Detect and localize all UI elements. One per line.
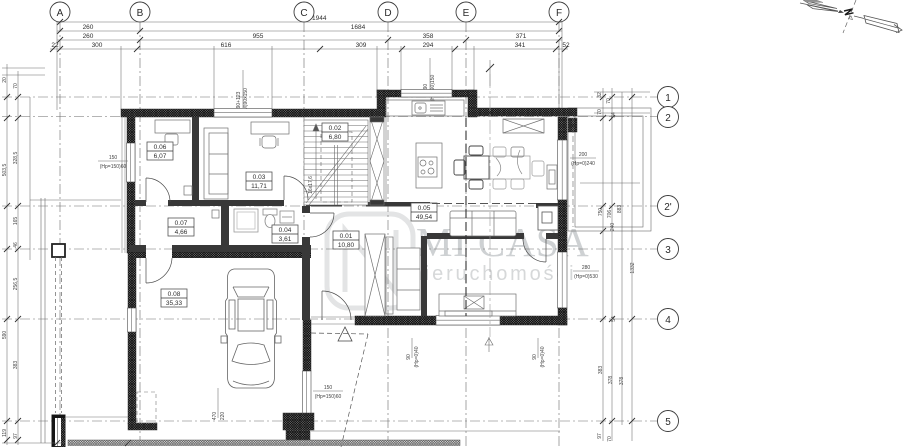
svg-text:200: 200 [579, 152, 588, 158]
bottom retaining wall band [68, 440, 460, 446]
window W3 in alcove top wall [401, 90, 452, 98]
hall shelf cabinet [397, 248, 420, 310]
window text 90 bottom right [532, 338, 546, 367]
grid circle 5 [658, 411, 679, 432]
tick mark 14 near E [486, 60, 494, 86]
svg-text:0.03: 0.03 [253, 174, 266, 181]
stairwell wall with cross bracing [370, 117, 384, 205]
svg-text:150: 150 [109, 155, 118, 161]
door 0.03 [284, 176, 308, 200]
bathroom shower [234, 209, 258, 232]
grid circle F [549, 2, 569, 22]
door 0.07 to garage [146, 258, 172, 283]
room 0.06 chair [165, 134, 178, 145]
svg-text:20: 20 [2, 77, 8, 83]
window W5 bedroom right wall [558, 252, 568, 308]
svg-text:0.01: 0.01 [340, 233, 353, 240]
room label 0.03 [246, 172, 272, 190]
TV nook wall stub [536, 203, 558, 208]
interior wall garage top right part [172, 245, 311, 252]
bold grid E segment through house [465, 118, 467, 316]
bedroom bed [439, 294, 516, 316]
alcove left wall [377, 90, 386, 117]
svg-text:280: 280 [582, 265, 591, 271]
svg-text:(Hp=150)60: (Hp=150)60 [315, 394, 342, 400]
svg-text:B: B [137, 8, 144, 19]
roof outline dashed over driveway [311, 333, 368, 447]
door bedroom [523, 239, 546, 262]
svg-text:503,5: 503,5 [2, 164, 8, 177]
svg-text:90: 90 [406, 354, 412, 360]
svg-text:220: 220 [220, 412, 226, 421]
stairs 0.02 [304, 120, 368, 205]
hob [418, 157, 437, 177]
svg-text:70: 70 [606, 98, 612, 104]
radiator box hall 0.07 [212, 210, 219, 218]
room label 0.02 [322, 123, 348, 141]
svg-text:616: 616 [221, 42, 232, 49]
svg-text:6,07: 6,07 [154, 153, 167, 160]
carport column top [52, 244, 65, 257]
svg-text:A: A [57, 8, 64, 19]
interior wall below 0.06 right part [168, 200, 192, 206]
exterior wall left [127, 115, 135, 253]
kitchen counter top [386, 100, 464, 116]
top dimension row 2 (260,1684) [57, 24, 562, 34]
carport column base bottom [65, 416, 128, 418]
room 0.03 sofa [204, 128, 228, 199]
svg-text:119: 119 [2, 429, 8, 437]
svg-text:90+123: 90+123 [236, 91, 242, 108]
grid circle C [294, 2, 314, 22]
svg-text:4,66: 4,66 [175, 229, 188, 236]
entrance triangle marker [338, 327, 352, 341]
svg-text:49,54: 49,54 [416, 214, 433, 221]
washbasin [280, 211, 294, 223]
svg-text:0.02: 0.02 [329, 125, 342, 132]
plot boundary lines left [30, 198, 121, 443]
top dimension row 1 (1944) [57, 15, 562, 25]
svg-text:260: 260 [83, 33, 94, 40]
svg-text:3: 3 [665, 245, 671, 256]
svg-text:0.04: 0.04 [279, 227, 292, 234]
grid circle E [456, 2, 476, 22]
room label 0.01 [333, 231, 359, 249]
garage right exterior wall [303, 320, 311, 371]
TV cabinet lower [538, 206, 558, 230]
window W8 garage right wall [303, 371, 312, 414]
svg-text:54: 54 [611, 316, 617, 322]
grid circle A [50, 2, 70, 22]
terrace dashed edge [572, 118, 574, 227]
kitchen sink [412, 101, 445, 115]
svg-text:70: 70 [597, 109, 603, 115]
garage door text 470/220 [212, 388, 226, 420]
grid circle 4 [658, 309, 679, 330]
svg-text:378: 378 [608, 376, 614, 385]
interior wall bedroom top stub [546, 233, 558, 239]
svg-text:97: 97 [597, 433, 603, 439]
interior wall hall/bedroom [421, 236, 427, 316]
door 0.06 [146, 178, 170, 202]
svg-text:1332: 1332 [630, 262, 636, 273]
carport dashed edge [56, 257, 62, 413]
svg-text:294: 294 [423, 42, 434, 49]
svg-text:52: 52 [562, 42, 570, 49]
terrace corner wall stub [568, 118, 577, 132]
svg-text:378: 378 [619, 377, 625, 386]
dining table [454, 146, 544, 189]
grid circle 2 [658, 107, 679, 128]
svg-text:150: 150 [324, 385, 333, 391]
interior wall 0.07/0.04 [221, 206, 229, 250]
exterior wall right lower [558, 238, 567, 252]
svg-text:256,5: 256,5 [13, 278, 19, 291]
alcove right wall [468, 90, 477, 117]
left chain ticks [4, 94, 21, 443]
exterior wall top-left [121, 109, 377, 117]
svg-text:955: 955 [253, 33, 264, 40]
svg-text:32: 32 [597, 92, 603, 98]
garage left wall [128, 251, 136, 411]
svg-text:35,33: 35,33 [166, 300, 183, 307]
left dimension chain lines [2, 64, 45, 445]
window label 90+123 top wall [236, 70, 249, 112]
carport column bottom [52, 415, 65, 447]
svg-text:0.08: 0.08 [168, 291, 181, 298]
svg-text:(Hp=0)530: (Hp=0)530 [574, 274, 598, 280]
svg-text:1: 1 [665, 93, 671, 104]
svg-text:11,71: 11,71 [251, 183, 267, 190]
svg-text:470: 470 [212, 412, 218, 421]
right dim texts rotated [597, 92, 636, 442]
svg-text:22: 22 [51, 42, 59, 49]
svg-text:46: 46 [13, 242, 19, 248]
svg-text:0.07: 0.07 [175, 220, 188, 227]
svg-text:54: 54 [611, 112, 617, 118]
svg-text:5: 5 [665, 417, 671, 428]
svg-text:F: F [556, 8, 562, 19]
watermark logo [327, 214, 413, 308]
entrance door [322, 291, 351, 320]
svg-text:358: 358 [423, 33, 434, 40]
window W2 in left wall [127, 143, 136, 182]
room 0.06 desk [155, 120, 190, 133]
grid vertical lines A-F [60, 22, 559, 447]
svg-text:97: 97 [13, 433, 19, 439]
grid circle B [130, 2, 150, 22]
svg-text:706: 706 [607, 210, 613, 219]
svg-text:341: 341 [515, 42, 526, 49]
north arrow [800, 0, 902, 33]
interior wall 0.06/0.03 [192, 117, 199, 206]
car in garage [221, 269, 281, 388]
svg-text:260: 260 [83, 24, 94, 31]
svg-text:883: 883 [617, 205, 623, 214]
terrace outline right [568, 108, 651, 231]
exterior wall right bottom corner [558, 308, 567, 325]
top dimension row 3 (260,955,358,371) [57, 33, 562, 43]
hall narrow cabinet [386, 237, 393, 314]
interior wall below stairs left [311, 202, 342, 207]
svg-text:90: 90 [532, 354, 538, 360]
top dimension row 4 (22,300,616,309,294,341,52) [50, 42, 570, 52]
interior wall hall/garage lower [302, 237, 310, 320]
window W4 terrace door right wall [558, 140, 568, 200]
interior wall below 0.06 [135, 200, 146, 206]
window text 150 garage right [313, 385, 343, 400]
kitchen island [416, 143, 442, 188]
svg-text:(Hp=0)240: (Hp=0)240 [571, 161, 595, 167]
svg-text:300: 300 [92, 42, 103, 49]
carport roof dashed edge bottom [137, 392, 156, 423]
svg-text:2: 2 [665, 113, 671, 124]
TV cabinet [547, 165, 557, 189]
svg-text:0.06: 0.06 [154, 144, 167, 151]
kitchen west face line [385, 117, 387, 202]
garage pier bottom-right [283, 413, 314, 430]
svg-text:E: E [463, 8, 470, 19]
window label 90 Hp=90 alcove [423, 58, 436, 101]
svg-text:371: 371 [516, 33, 527, 40]
svg-text:165: 165 [13, 217, 19, 226]
garage right wall bottom [303, 413, 311, 430]
window W6 in bottom wall [436, 316, 500, 326]
interior wall below stairs right / kitchen cabinets [366, 202, 430, 207]
window W1 in top wall [214, 109, 272, 118]
room label 0.08 [161, 289, 187, 307]
svg-text:6,80: 6,80 [329, 134, 342, 141]
right chain ticks [600, 94, 635, 424]
svg-text:(Hp=0)40: (Hp=0)40 [540, 346, 546, 367]
svg-text:1944: 1944 [312, 15, 327, 22]
svg-text:383: 383 [13, 361, 19, 370]
exterior wall right upper [558, 117, 567, 140]
svg-text:590: 590 [2, 331, 8, 340]
door bathroom [310, 213, 334, 237]
exterior wall right middle [558, 200, 567, 238]
right dimension chain lines [580, 88, 650, 441]
line below garage [311, 430, 560, 432]
room label 0.06 [147, 142, 173, 160]
section line A [489, 74, 491, 337]
svg-text:70: 70 [607, 436, 613, 442]
window text 200 right wall [570, 152, 596, 167]
svg-text:D: D [384, 8, 391, 19]
window W7 garage left wall [128, 308, 137, 332]
entrance threshold [311, 317, 355, 324]
svg-text:C: C [300, 8, 307, 19]
svg-text:750: 750 [598, 208, 604, 217]
interior wall below 0.03 [199, 200, 284, 206]
grid horizontal lines 1,2,2',3,4,5 [2, 97, 657, 421]
beam dashed over living room [432, 203, 558, 205]
room label 0.07 [168, 218, 194, 236]
svg-text:(Hp=0)40: (Hp=0)40 [414, 346, 420, 367]
svg-text:16x17,6: 16x17,6 [308, 176, 314, 194]
grid circle D [378, 2, 398, 22]
top extension lines [57, 22, 562, 110]
wardrobe crossed near stairs [503, 119, 544, 133]
room 0.03 desk chair [260, 136, 278, 148]
svg-text:0.05: 0.05 [418, 205, 431, 212]
bottom dim line [2, 440, 131, 446]
svg-text:328,5: 328,5 [13, 152, 19, 165]
grid circle 1 [658, 87, 679, 108]
interior wall garage top left part [129, 245, 146, 252]
hall wardrobe crossed [365, 234, 385, 316]
svg-text:2': 2' [664, 202, 672, 213]
grid circle 2' [658, 196, 679, 217]
left dim texts rotated [2, 77, 19, 439]
svg-text:1684: 1684 [351, 24, 366, 31]
garage pier bottom-left [128, 411, 136, 424]
svg-text:309: 309 [356, 42, 367, 49]
svg-text:383: 383 [598, 366, 604, 375]
window text 90 bottom left [406, 338, 420, 367]
room 0.06 small box [184, 186, 192, 195]
interior wall hall/garage upper [302, 206, 310, 213]
room label 0.04 [272, 225, 298, 243]
room 0.03 desk [251, 122, 289, 134]
svg-text:nieruchomości: nieruchomości [411, 263, 576, 285]
interior wall stub right of 0.03 door [306, 200, 311, 206]
exterior wall bottom bedroom [355, 316, 567, 325]
interior wall bedroom top [427, 233, 524, 239]
window text 280 right wall lower [573, 265, 599, 280]
svg-text:4: 4 [665, 315, 671, 326]
alcove top wall [377, 90, 474, 97]
svg-text:70: 70 [13, 83, 19, 89]
toilet [263, 209, 277, 228]
svg-text:10,80: 10,80 [338, 242, 355, 249]
grid circle 3 [658, 239, 679, 260]
svg-text:3,61: 3,61 [279, 236, 292, 243]
section marker bottom [485, 337, 493, 352]
svg-text:(Hp=150)60: (Hp=150)60 [100, 164, 127, 170]
living room sofa [450, 211, 516, 236]
exterior wall top-right [468, 108, 577, 116]
window text 150 left wall [98, 155, 128, 170]
room label 0.05 [411, 203, 437, 221]
garage pier foot bottom-left [128, 423, 157, 430]
